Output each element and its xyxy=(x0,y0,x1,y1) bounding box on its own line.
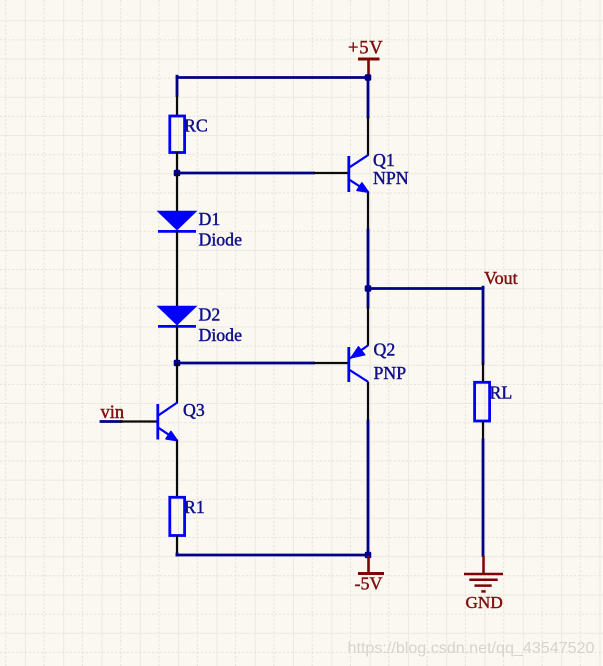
transistor Q2 xyxy=(349,345,369,382)
wire RL to GND xyxy=(482,440,485,556)
transistor Q2 emitter pin xyxy=(367,307,369,346)
svg-text:Vout: Vout xyxy=(484,268,518,288)
wire Vout horizontal xyxy=(368,287,483,290)
resistor R1 pin bottom xyxy=(176,536,178,555)
resistor RL pin bottom xyxy=(482,421,484,440)
svg-text:RC: RC xyxy=(184,116,208,136)
transistor Q1 emitter pin xyxy=(367,192,369,230)
wire +5V to Q1 collector xyxy=(367,78,370,118)
node junction Vout xyxy=(365,285,372,292)
transistor Q1 xyxy=(349,155,369,192)
svg-text:https://blog.csdn.net/qq_43547: https://blog.csdn.net/qq_43547520 xyxy=(348,639,595,657)
diode D2 xyxy=(158,306,196,324)
transistor Q2 base pin xyxy=(314,362,350,364)
wire Q1 base xyxy=(177,172,314,175)
svg-text:GND: GND xyxy=(466,593,503,612)
resistor RC xyxy=(170,116,185,153)
wire top rail left drop xyxy=(176,76,179,95)
transistor Q3 base pin xyxy=(120,420,159,422)
svg-text:-5V: -5V xyxy=(355,574,383,594)
diode D1 xyxy=(158,211,196,229)
resistor R1 xyxy=(170,497,185,535)
wire output node to Q2 emitter xyxy=(367,289,370,308)
resistor RC pin bottom xyxy=(176,152,178,173)
wire Q2 collector to bottom rail xyxy=(367,421,370,555)
transistor Q3 xyxy=(158,403,178,441)
node junction RC/D1/Q1-base xyxy=(174,170,181,177)
svg-text:Diode: Diode xyxy=(199,325,243,345)
wire vin stub xyxy=(101,420,121,423)
diode D2 cathode pin xyxy=(176,326,178,363)
svg-text:D2: D2 xyxy=(199,304,221,324)
ground xyxy=(464,556,503,592)
svg-text:Diode: Diode xyxy=(199,229,243,249)
transistor Q1 collector pin xyxy=(367,117,369,156)
diode D1 anode pin xyxy=(176,173,178,212)
svg-text:Q2: Q2 xyxy=(374,340,396,360)
resistor RC pin top xyxy=(176,96,178,117)
node junction -5V xyxy=(365,552,372,559)
svg-text:Q3: Q3 xyxy=(183,400,205,420)
wire top rail horizontal xyxy=(177,76,368,79)
power -5V bar symbol xyxy=(358,556,384,574)
svg-text:PNP: PNP xyxy=(374,363,407,383)
wire D1 cathode to D2 anode xyxy=(176,231,178,307)
transistor Q1 base pin xyxy=(314,172,350,174)
svg-text:NPN: NPN xyxy=(373,168,409,188)
svg-text:+5V: +5V xyxy=(348,39,383,59)
svg-text:D1: D1 xyxy=(199,209,221,229)
svg-text:RL: RL xyxy=(490,383,513,403)
transistor Q2 collector pin xyxy=(367,382,369,421)
node junction +5V xyxy=(365,74,372,81)
node junction D2/Q3/Q2-base xyxy=(174,360,181,367)
wire Q1 emitter to output node xyxy=(367,230,370,289)
power +5V bar symbol xyxy=(358,59,380,77)
transistor Q3 collector pin xyxy=(176,363,178,404)
svg-text:Q1: Q1 xyxy=(373,150,395,170)
wire Q2 base xyxy=(177,362,314,365)
resistor RL pin top xyxy=(482,364,484,384)
wire Vout vertical to RL xyxy=(482,287,485,363)
transistor Q3 emitter pin xyxy=(176,441,178,498)
resistor RL xyxy=(475,382,490,421)
svg-text:R1: R1 xyxy=(184,497,205,517)
wire bottom rail xyxy=(177,554,368,557)
